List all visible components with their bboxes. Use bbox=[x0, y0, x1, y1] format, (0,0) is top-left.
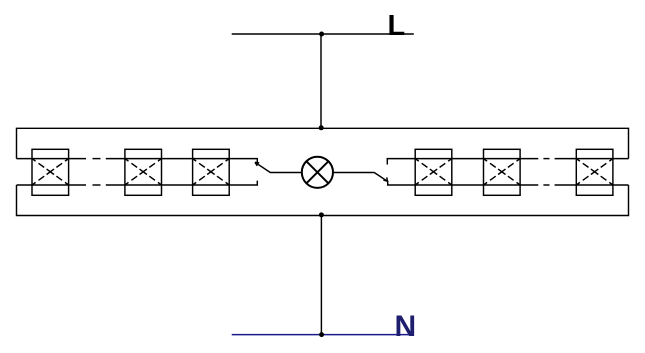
svg-text:L: L bbox=[388, 10, 406, 42]
svg-text:N: N bbox=[395, 310, 417, 343]
